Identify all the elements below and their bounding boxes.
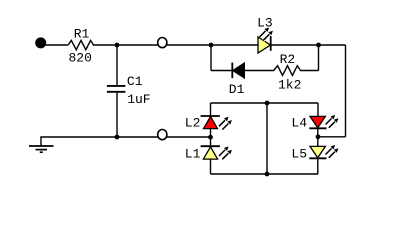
wire branch up bbox=[318, 45, 320, 71]
L2 emission arrows bbox=[219, 117, 229, 127]
svg-text:1uF: 1uF bbox=[127, 92, 150, 107]
node bridge left middle bbox=[208, 135, 213, 140]
LED L3 (yellow, pointing right) bbox=[258, 37, 271, 53]
node C1 bottom junction bbox=[115, 135, 120, 140]
svg-text:L4: L4 bbox=[291, 116, 307, 131]
wire T2 to bridge left node bbox=[167, 136, 211, 138]
L4 emission arrows bbox=[326, 115, 336, 125]
svg-text:R1: R1 bbox=[74, 27, 90, 42]
resistor R1 bbox=[68, 40, 93, 49]
wire D1 to R2 bbox=[245, 70, 275, 72]
svg-text:D1: D1 bbox=[229, 82, 245, 97]
wire node to terminal T2 bbox=[117, 136, 158, 138]
node bottom bus middle bbox=[265, 172, 270, 177]
L3 emission arrows bbox=[260, 27, 270, 37]
LED L5 (yellow, pointing down) bbox=[310, 146, 325, 157]
wire node to right corner bbox=[319, 44, 346, 46]
LED L4 (red, pointing down) bbox=[310, 116, 325, 127]
wire middle vertical bbox=[266, 103, 268, 174]
svg-text:820: 820 bbox=[69, 51, 92, 66]
node bridge right middle bbox=[316, 134, 321, 139]
wire right horizontal into L4/L5 node bbox=[318, 136, 346, 138]
wire top bus to L4 bbox=[317, 103, 319, 116]
svg-text:C1: C1 bbox=[127, 74, 143, 89]
LED L1 (yellow, pointing up) bbox=[201, 145, 220, 147]
ground bbox=[40, 137, 42, 146]
svg-text:L2: L2 bbox=[185, 116, 201, 131]
bridge bottom bus bbox=[211, 173, 319, 175]
terminal T2 (open circle) bbox=[158, 130, 167, 140]
wire to D1 bbox=[211, 70, 232, 72]
svg-text:L5: L5 bbox=[291, 147, 307, 162]
wire L2 to mid node bbox=[210, 129, 212, 147]
node R2 branch junction bbox=[316, 43, 321, 48]
input terminal (filled dot) bbox=[35, 37, 46, 48]
L5 emission arrows bbox=[326, 145, 336, 155]
svg-text:L3: L3 bbox=[257, 15, 273, 30]
svg-text:L1: L1 bbox=[185, 147, 201, 162]
wire L5 to bottom bus bbox=[317, 158, 319, 174]
node C1 tap junction bbox=[115, 43, 120, 48]
terminal T1 (open circle) bbox=[158, 38, 167, 48]
L1 emission arrows bbox=[219, 146, 229, 156]
diode D1 (pointing left) bbox=[231, 63, 233, 79]
wire R1 to C1 node bbox=[93, 44, 117, 46]
wire node to terminal T1 bbox=[117, 44, 158, 46]
capacitor C1 bbox=[116, 45, 118, 85]
svg-text:1k2: 1k2 bbox=[278, 78, 301, 93]
wire L3 to R2-branch node bbox=[271, 44, 319, 46]
wire L1 to bottom bus bbox=[210, 159, 212, 174]
wire branch down-left bbox=[210, 45, 212, 71]
wire dot to R1 bbox=[44, 44, 68, 46]
wire L4 to mid node bbox=[317, 128, 319, 146]
LED L2 (red, pointing up) bbox=[201, 115, 220, 117]
svg-text:R2: R2 bbox=[280, 52, 296, 67]
resistor R2 bbox=[274, 66, 301, 76]
wire top bus to L2 bbox=[210, 103, 212, 116]
bridge top bus bbox=[211, 102, 319, 104]
wire node to L3 bbox=[211, 44, 258, 46]
wire ground to C1 bottom node bbox=[40, 136, 117, 138]
wire T1 to branch node bbox=[167, 44, 211, 46]
node top bus middle bbox=[265, 101, 270, 106]
wire right vertical bbox=[345, 45, 347, 137]
node branch junction bbox=[209, 43, 214, 48]
wire R2 to branch top bbox=[300, 70, 319, 72]
